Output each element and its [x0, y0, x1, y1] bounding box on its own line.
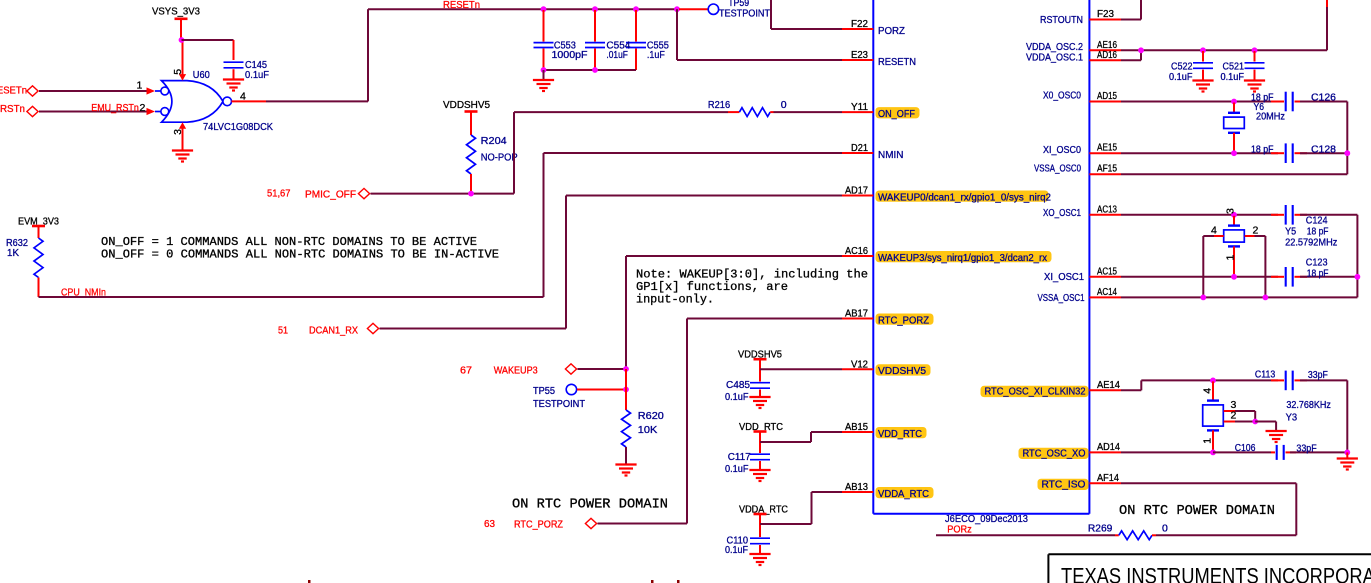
svg-text:C113: C113	[1255, 369, 1275, 381]
svg-text:VSSA_OSC0: VSSA_OSC0	[1034, 162, 1081, 174]
svg-text:AB15: AB15	[845, 421, 868, 433]
svg-text:RTC_PORZ: RTC_PORZ	[514, 519, 564, 531]
svg-text:1: 1	[1201, 438, 1213, 444]
svg-text:XI_OSC1: XI_OSC1	[1044, 271, 1084, 283]
svg-text:ON_OFF = 0 COMMANDS ALL NON-RT: ON_OFF = 0 COMMANDS ALL NON-RTC DOMAINS …	[101, 248, 499, 262]
svg-text:0: 0	[1162, 523, 1168, 535]
svg-text:51: 51	[278, 325, 288, 337]
svg-text:0.1uF: 0.1uF	[1169, 71, 1193, 83]
svg-text:R269: R269	[1088, 523, 1113, 535]
svg-text:R216: R216	[708, 99, 730, 111]
svg-text:PORZ: PORZ	[878, 25, 906, 37]
svg-text:EMU_RSTn: EMU_RSTn	[91, 102, 139, 114]
svg-text:RTC_OSC_XI_CLKIN32: RTC_OSC_XI_CLKIN32	[985, 386, 1086, 398]
svg-text:AC13: AC13	[1097, 203, 1117, 215]
svg-text:X0_OSC0: X0_OSC0	[1043, 90, 1081, 102]
svg-text:4: 4	[240, 91, 246, 103]
svg-text:51,67: 51,67	[267, 188, 291, 200]
svg-text:0.1uF: 0.1uF	[1221, 71, 1245, 83]
svg-text:F23: F23	[1097, 8, 1114, 20]
svg-text:63: 63	[484, 518, 495, 530]
svg-text:3: 3	[172, 129, 184, 135]
svg-text:VDDA_RTC: VDDA_RTC	[878, 488, 929, 500]
svg-text:TRSTn: TRSTn	[0, 103, 25, 115]
svg-text:18 pF: 18 pF	[1307, 267, 1329, 279]
svg-text:2: 2	[1253, 225, 1259, 237]
svg-text:3: 3	[1225, 208, 1237, 214]
svg-text:AD17: AD17	[845, 185, 868, 197]
svg-text:C106: C106	[1235, 442, 1256, 454]
svg-text:TP55: TP55	[533, 385, 555, 397]
svg-text:PORz: PORz	[947, 523, 972, 535]
svg-text:AE15: AE15	[1097, 142, 1117, 154]
svg-text:1: 1	[1225, 255, 1237, 261]
svg-text:Y3: Y3	[1286, 411, 1298, 423]
svg-text:0.1uF: 0.1uF	[725, 391, 749, 403]
svg-text:ON_OFF: ON_OFF	[878, 108, 915, 120]
svg-text:4: 4	[1201, 388, 1213, 394]
svg-text:XO_OSC1: XO_OSC1	[1043, 207, 1081, 219]
svg-text:V12: V12	[851, 358, 868, 370]
svg-text:2: 2	[1231, 410, 1237, 422]
svg-text:74LVC1G08DCK: 74LVC1G08DCK	[203, 121, 273, 133]
svg-text:.01uF: .01uF	[606, 49, 628, 61]
svg-text:2: 2	[140, 102, 146, 114]
svg-text:VDDSHV5: VDDSHV5	[443, 99, 490, 111]
svg-text:67: 67	[460, 365, 472, 377]
svg-text:AC16: AC16	[845, 245, 868, 257]
svg-text:C117: C117	[728, 451, 751, 463]
svg-text:VDD_RTC: VDD_RTC	[878, 428, 922, 440]
svg-text:33pF: 33pF	[1296, 442, 1316, 454]
svg-text:E23: E23	[851, 49, 868, 61]
svg-text:VDDA_OSC.1: VDDA_OSC.1	[1026, 51, 1083, 63]
svg-text:input-only.: input-only.	[636, 292, 714, 306]
svg-text:R204: R204	[481, 135, 507, 147]
svg-text:.1uF: .1uF	[647, 49, 665, 61]
svg-text:RTC_PORZ: RTC_PORZ	[878, 314, 930, 326]
svg-text:AC15: AC15	[1097, 265, 1117, 277]
svg-text:AC14: AC14	[1097, 286, 1117, 298]
svg-text:18 pF: 18 pF	[1251, 143, 1274, 155]
svg-text:33pF: 33pF	[1308, 369, 1328, 381]
svg-text:U60: U60	[193, 69, 210, 81]
svg-text:AB13: AB13	[845, 481, 868, 493]
svg-text:DCAN1_RX: DCAN1_RX	[309, 325, 358, 337]
svg-text:AE14: AE14	[1097, 379, 1120, 391]
svg-text:AD15: AD15	[1097, 90, 1117, 102]
svg-text:Y11: Y11	[851, 101, 868, 113]
svg-text:RESETn: RESETn	[0, 85, 27, 97]
svg-text:VDDSHV5: VDDSHV5	[878, 365, 926, 377]
svg-text:RSTOUTN: RSTOUTN	[1040, 14, 1083, 26]
svg-text:NMIN: NMIN	[878, 149, 904, 161]
svg-text:VSSA_OSC1: VSSA_OSC1	[1038, 292, 1085, 304]
svg-text:1: 1	[137, 80, 143, 92]
svg-text:XI_OSC0: XI_OSC0	[1043, 144, 1081, 156]
svg-text:0.1uF: 0.1uF	[725, 544, 748, 556]
svg-text:RTC_ISO: RTC_ISO	[1042, 479, 1086, 491]
svg-text:WAKEUP3: WAKEUP3	[494, 365, 538, 377]
svg-text:ON RTC POWER DOMAIN: ON RTC POWER DOMAIN	[1119, 504, 1275, 519]
svg-text:WAKEUP3/sys_nirq1/gpio1_3/dcan: WAKEUP3/sys_nirq1/gpio1_3/dcan2_rx	[878, 252, 1048, 264]
svg-text:C128: C128	[1311, 143, 1336, 155]
svg-text:R620: R620	[638, 410, 664, 422]
svg-text:PMIC_OFF: PMIC_OFF	[305, 189, 356, 201]
svg-text:NO-POP: NO-POP	[481, 152, 518, 164]
svg-text:AF15: AF15	[1097, 163, 1117, 175]
svg-text:22.5792MHz: 22.5792MHz	[1285, 236, 1337, 248]
svg-text:ON RTC POWER DOMAIN: ON RTC POWER DOMAIN	[512, 498, 668, 513]
svg-text:TESTPOINT: TESTPOINT	[533, 398, 586, 410]
svg-text:C485: C485	[726, 379, 750, 391]
svg-text:4: 4	[1211, 225, 1217, 237]
svg-text:VSYS_3V3: VSYS_3V3	[152, 6, 200, 18]
svg-text:0.1uF: 0.1uF	[725, 463, 749, 475]
svg-text:1K: 1K	[7, 247, 19, 259]
svg-text:D21: D21	[851, 142, 868, 154]
svg-text:TESTPOINT: TESTPOINT	[719, 8, 771, 20]
svg-text:10K: 10K	[638, 424, 658, 436]
svg-text:32.768KHz: 32.768KHz	[1286, 399, 1331, 411]
svg-text:C126: C126	[1311, 92, 1336, 104]
svg-text:20MHz: 20MHz	[1256, 111, 1285, 123]
svg-text:0: 0	[781, 99, 787, 111]
svg-text:RESETN: RESETN	[878, 56, 916, 68]
svg-text:0.1uF: 0.1uF	[245, 69, 269, 81]
svg-text:RESETn: RESETn	[443, 0, 480, 11]
svg-text:AF14: AF14	[1097, 472, 1119, 484]
svg-text:WAKEUP0/dcan1_rx/gpio1_0/sys_n: WAKEUP0/dcan1_rx/gpio1_0/sys_nirq2	[878, 191, 1051, 203]
svg-text:5: 5	[172, 69, 184, 75]
svg-text:1000pF: 1000pF	[552, 49, 588, 61]
svg-text:AB17: AB17	[845, 308, 868, 320]
svg-text:TEXAS INSTRUMENTS INCORPORATED: TEXAS INSTRUMENTS INCORPORATED	[1061, 565, 1371, 583]
svg-text:RTC_OSC_XO: RTC_OSC_XO	[1023, 448, 1086, 460]
svg-text:AD14: AD14	[1097, 441, 1120, 453]
svg-text:F22: F22	[851, 18, 868, 30]
svg-text:AD16: AD16	[1097, 49, 1117, 61]
